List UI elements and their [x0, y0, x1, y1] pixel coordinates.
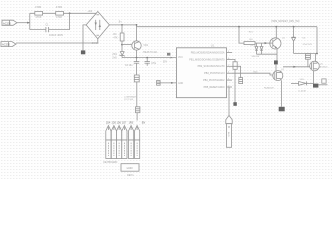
wire Q1 collector: [275, 26, 277, 38]
connector terminal T1: [106, 126, 111, 159]
svg-text:PB4_PCINT4/ADC2: PB4_PCINT4/ADC2: [203, 79, 225, 82]
svg-text:47uF 50V: 47uF 50V: [303, 44, 313, 46]
wire dropper bottom branch: [30, 29, 46, 31]
wire VR1 bottom pin: [136, 50, 138, 57]
svg-text:1D4: 1D4: [106, 121, 111, 124]
svg-text:VCC: VCC: [178, 57, 183, 59]
arrow on gate wire: [293, 66, 296, 68]
svg-text:AC230: AC230: [2, 43, 10, 47]
svg-text:AO3401: AO3401: [320, 65, 329, 68]
resistor R7: [305, 54, 310, 59]
svg-text:1D7: 1D7: [122, 121, 127, 124]
wire R4 to ground: [234, 69, 236, 102]
pot box RV1: [134, 75, 139, 82]
wire pot to box2: [136, 82, 138, 107]
svg-text:1RS: 1RS: [129, 121, 134, 124]
IC U1: [176, 48, 226, 98]
resistor R4: [233, 62, 237, 70]
wire diode bottoms: [257, 53, 278, 55]
junction dot B: [69, 12, 71, 14]
wire R7 to gate: [307, 59, 309, 67]
resistor box R6: [136, 107, 140, 113]
wire right stub: [318, 84, 327, 86]
wire pin4 to Q2 gate: [232, 73, 274, 75]
port P2: [1, 42, 16, 47]
svg-text:C2 10u: C2 10u: [125, 65, 133, 67]
svg-text:2W10: 2W10: [92, 41, 99, 45]
wire pin2 branch: [232, 59, 235, 61]
svg-text:470K: 470K: [56, 15, 62, 19]
svg-text:PB0_MOSI/DI/SDA/AIN0/OC0A: PB0_MOSI/DI/SDA/AIN0/OC0A: [191, 51, 225, 54]
wire rail corner down: [316, 27, 318, 54]
svg-text:D2 D3: D2 D3: [251, 45, 258, 47]
probe text marks: [227, 132, 229, 138]
wire Q1 base branch: [238, 26, 244, 43]
wire Q1 emitter down: [276, 48, 278, 60]
svg-text:100nF 400V: 100nF 400V: [49, 33, 63, 37]
svg-text:EN: EN: [142, 121, 146, 124]
probe RT1: [226, 115, 232, 147]
wire pin3 branch: [232, 66, 241, 77]
svg-text:LL4148: LL4148: [298, 91, 306, 93]
connector terminal T2: [111, 126, 116, 159]
svg-text:PB3_PCINT3/CLKI: PB3_PCINT3/CLKI: [204, 72, 225, 75]
ground G3: [233, 102, 236, 106]
svg-text:78L05 TO-92: 78L05 TO-92: [143, 51, 158, 54]
svg-text:1N4148: 1N4148: [251, 56, 259, 58]
wire port1 to node: [17, 22, 30, 24]
wire dropper right vertical: [69, 13, 71, 29]
wire R21 to Q1: [255, 42, 270, 44]
svg-text:PWM_MOSFET_DRV_5V0: PWM_MOSFET_DRV_5V0: [272, 21, 301, 23]
junction dot C2: [136, 24, 138, 26]
regulator VR1: [132, 41, 141, 50]
wire D4 branch: [293, 26, 295, 37]
wire Q3 drain: [315, 54, 317, 62]
zener ZD1: [120, 52, 125, 57]
resistor R21: [244, 42, 255, 45]
resistor R2: [56, 12, 64, 16]
svg-text:VR1: VR1: [143, 44, 148, 47]
U1 pin numbers: [228, 51, 230, 88]
wire R3 to zener: [121, 41, 123, 51]
capacitor C1: [46, 27, 49, 32]
wire gnd to IC: [160, 82, 176, 84]
diode D4: [292, 37, 296, 41]
ground G5: [313, 84, 318, 88]
svg-text:470R: 470R: [35, 5, 41, 9]
wire dropper top branch: [30, 12, 98, 14]
svg-text:RQA0009: RQA0009: [264, 87, 274, 90]
sense box RS1: [274, 60, 278, 64]
ground G1: [81, 50, 85, 54]
wire bridge left to ground: [83, 25, 86, 51]
transistor Q1: [270, 38, 281, 49]
svg-text:+D1: +D1: [87, 9, 92, 13]
diode D5: [291, 81, 314, 85]
svg-text:470R: 470R: [56, 5, 62, 9]
svg-text:KEYBOARD: KEYBOARD: [103, 161, 117, 164]
svg-text:CONTRAST: CONTRAST: [124, 95, 137, 98]
wire VR1 left pin: [122, 44, 132, 46]
connector terminal T6: [135, 126, 140, 159]
connector terminal T4: [122, 126, 127, 159]
LCD box: [121, 164, 139, 172]
wire zener to rail2: [121, 56, 123, 58]
wire VR1 top pin: [136, 27, 138, 41]
connector terminal T3: [117, 126, 122, 159]
svg-text:470u: 470u: [151, 63, 157, 65]
wire mid rail right: [294, 53, 317, 55]
svg-text:AC230: AC230: [3, 21, 11, 25]
bridge rectifier D1: [86, 12, 109, 39]
resistor R5: [239, 78, 243, 84]
svg-text:47K: 47K: [113, 37, 118, 40]
resistor R3: [120, 33, 124, 41]
svg-text:POT 10K: POT 10K: [124, 99, 133, 101]
wire vcc rail: [122, 57, 176, 59]
ground G4: [279, 107, 285, 112]
ground flag G2: [157, 81, 161, 86]
vcc tag: [167, 53, 172, 59]
junction arrow A: [27, 22, 30, 24]
wire R3 top: [121, 25, 123, 33]
wire positive rail: [109, 25, 317, 27]
svg-text:PB1_MISO/DO/AIN1/OC0B/INT0: PB1_MISO/DO/AIN1/OC0B/INT0: [189, 58, 225, 61]
svg-text:GND: GND: [178, 83, 183, 85]
capacitor C3: [145, 58, 150, 66]
svg-text:U1: U1: [211, 44, 215, 48]
junction dot G: [316, 53, 318, 55]
wire dropper left vertical: [29, 13, 31, 29]
box right: [322, 79, 326, 83]
wire box to Q2: [275, 64, 277, 71]
wire port2 to bridge bottom: [16, 39, 98, 43]
svg-text:25V: 25V: [163, 62, 168, 64]
svg-text:PB2_SCK/USCK/SCL/T0: PB2_SCK/USCK/SCL/T0: [198, 65, 226, 68]
junction dot D: [136, 57, 138, 59]
diode D3: [260, 43, 263, 54]
connector terminal T5: [129, 126, 134, 159]
svg-text:C1: C1: [45, 23, 49, 27]
wire pin6 to probe: [228, 87, 230, 115]
svg-text:5V6: 5V6: [112, 56, 117, 59]
junction dot F: [171, 82, 173, 84]
U1 pin stubs right: [227, 53, 233, 88]
wire Q3 gate: [283, 66, 310, 68]
svg-text:LCD: LCD: [127, 166, 134, 170]
wire Q2 source to ground: [281, 80, 283, 106]
svg-text:KEY1: KEY1: [127, 174, 134, 177]
resistor R1: [35, 12, 43, 16]
wire Q3 source down: [313, 71, 315, 84]
port P1: [2, 20, 17, 25]
svg-text:PB5_RESET/ADC0: PB5_RESET/ADC0: [204, 86, 226, 89]
wire D4 down: [293, 41, 295, 53]
mosfet Q2: [273, 71, 283, 81]
junction dot C: [121, 24, 123, 26]
diode D2: [255, 43, 258, 54]
svg-text:470K: 470K: [35, 15, 41, 19]
junction dot E: [146, 57, 148, 59]
svg-text:1D6: 1D6: [117, 121, 122, 124]
mosfet Q3: [310, 61, 320, 71]
junction dot VR1pin: [121, 44, 123, 46]
wire box2 to connector: [136, 113, 138, 121]
arrow on base wire: [265, 42, 268, 44]
svg-text:BUZ1: BUZ1: [227, 132, 229, 138]
capacitor C2: [134, 58, 139, 75]
